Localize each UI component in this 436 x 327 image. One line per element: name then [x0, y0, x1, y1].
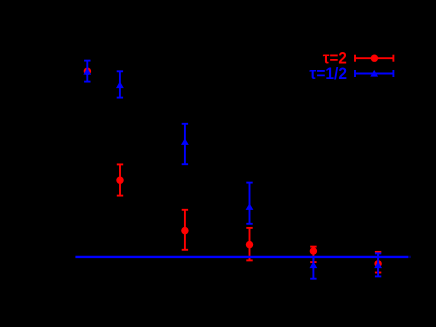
marker B4 triangle	[246, 203, 254, 210]
legend entry tau=1/2 (blue)	[309, 65, 393, 83]
errorbar B1	[84, 61, 90, 82]
errorbar R4	[246, 228, 252, 261]
errorbar R3	[182, 210, 188, 250]
errorbar B6	[375, 253, 381, 276]
marker R3 circle	[181, 227, 188, 234]
marker B3 triangle	[181, 138, 189, 145]
marker R4 circle	[246, 241, 253, 248]
errorbar B5	[310, 257, 316, 279]
marker R1 circle	[84, 68, 91, 75]
red series tau=2 : errorbars	[117, 164, 382, 272]
errorbar B2	[117, 71, 123, 97]
marker B6 triangle	[374, 261, 382, 268]
marker B5 triangle	[310, 261, 318, 268]
blue series tau=1/2 : errorbars	[84, 61, 381, 279]
marker R5 circle	[310, 247, 317, 254]
errorbar R2	[117, 164, 123, 195]
marker B2 triangle	[116, 81, 124, 88]
marker R2 circle	[116, 177, 123, 184]
legend entry tau=2 (red)	[323, 50, 394, 68]
errorbar R5	[310, 247, 316, 263]
marker R6 circle	[374, 260, 381, 267]
wire: faded right tail of fit line	[408, 256, 411, 258]
errorbar R6	[375, 252, 381, 273]
blue horizontal fit line	[75, 256, 408, 258]
errorbar B3	[182, 124, 188, 164]
svg-text:τ=1/2: τ=1/2	[309, 65, 347, 83]
marker B1 triangle	[83, 68, 91, 75]
errorbar B4	[246, 182, 252, 223]
